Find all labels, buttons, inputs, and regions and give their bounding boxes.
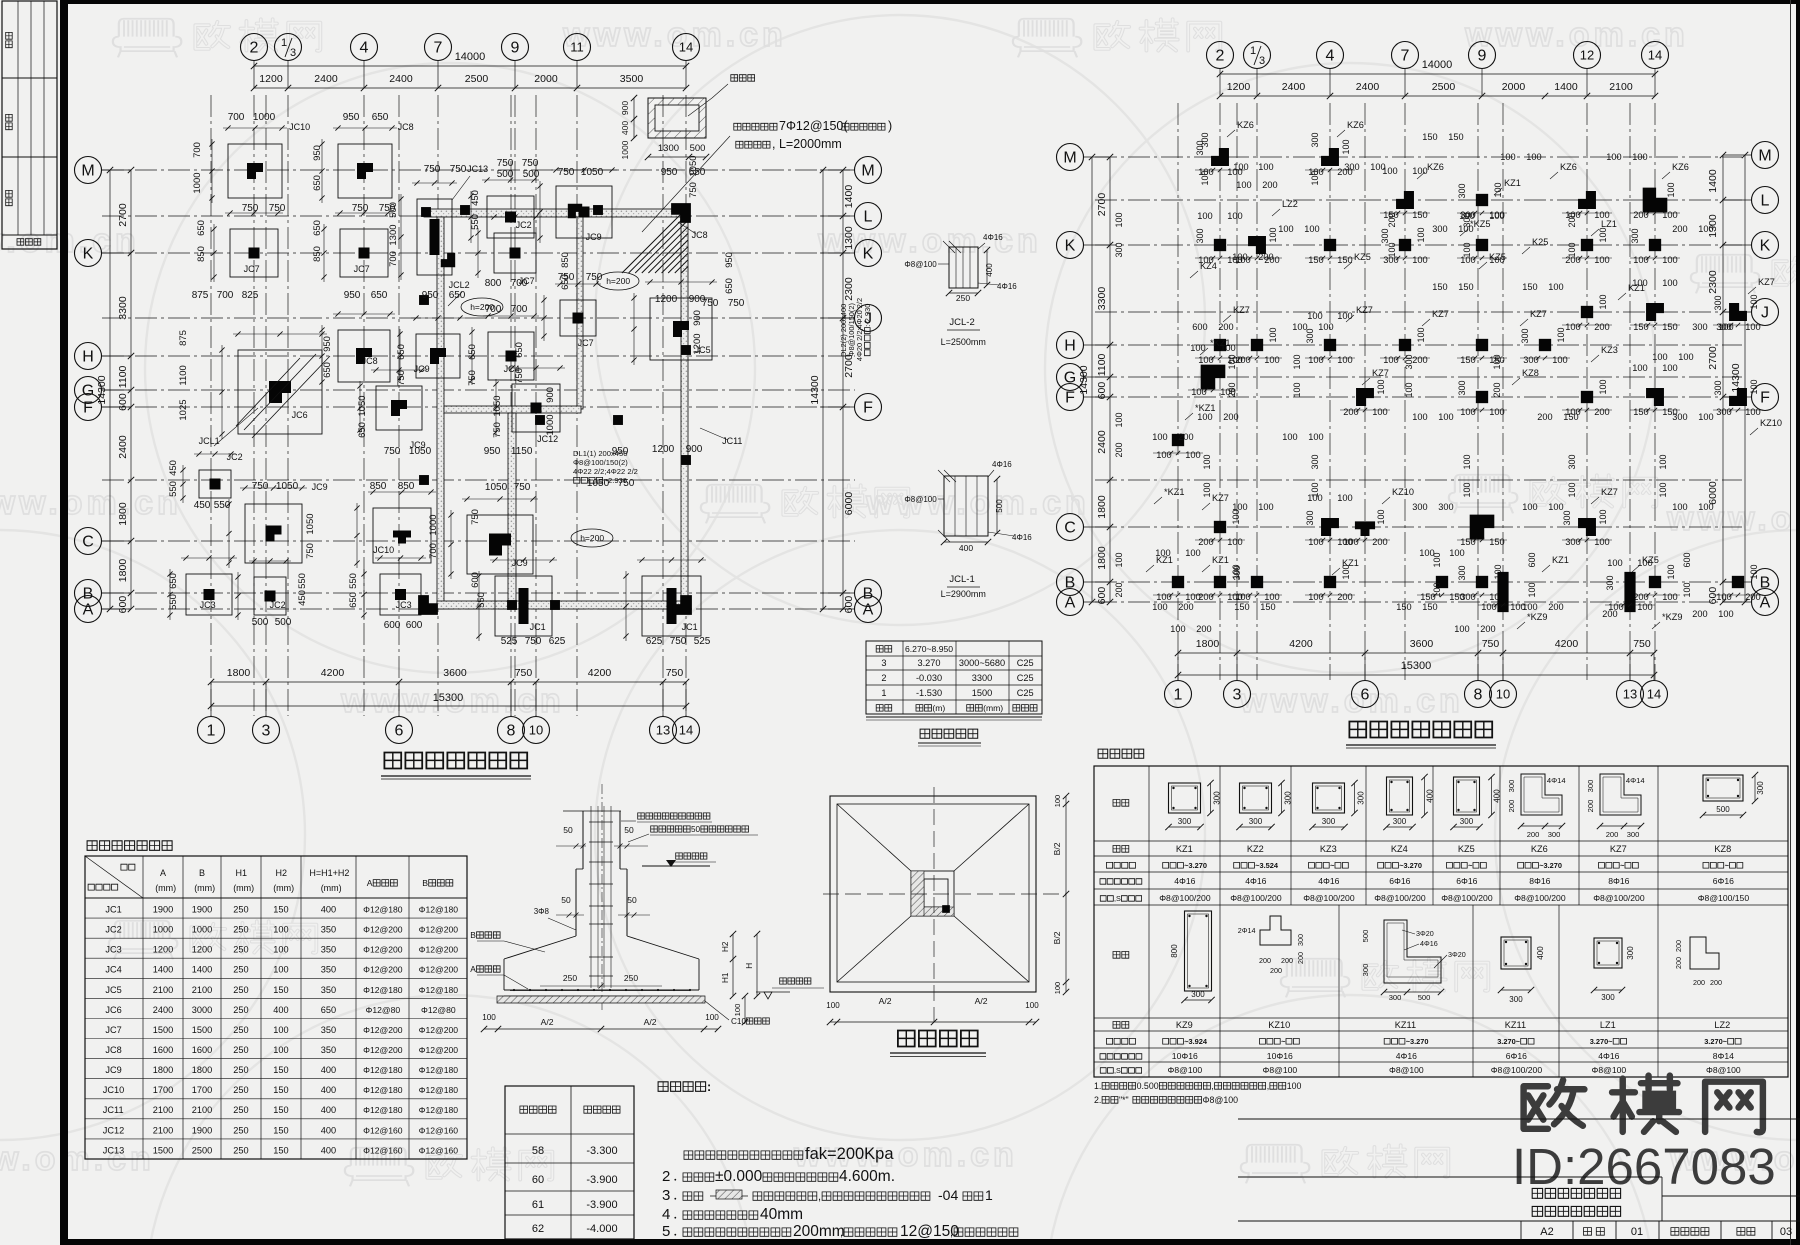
svg-text:Φ12@80: Φ12@80 xyxy=(421,1005,456,1015)
svg-text:3600: 3600 xyxy=(443,667,467,679)
svg-text:1000: 1000 xyxy=(192,172,203,193)
svg-text:B: B xyxy=(199,868,205,878)
svg-text:1100: 1100 xyxy=(178,365,189,385)
svg-text:550: 550 xyxy=(470,214,481,230)
svg-text:100: 100 xyxy=(1698,502,1713,512)
svg-text:100: 100 xyxy=(273,945,288,955)
svg-text:100: 100 xyxy=(1598,227,1608,242)
svg-text:100: 100 xyxy=(1202,454,1212,469)
right plan column marks xyxy=(1153,139,1763,612)
svg-text:3Φ20: 3Φ20 xyxy=(1448,950,1466,959)
sheet frame bottom border xyxy=(60,1239,1800,1245)
svg-text:1050: 1050 xyxy=(276,481,299,492)
svg-text:H: H xyxy=(1064,338,1076,355)
svg-text:900: 900 xyxy=(545,387,556,403)
svg-text:2700: 2700 xyxy=(1707,346,1719,370)
svg-text:2: 2 xyxy=(1216,48,1225,65)
right plan top segment dimensions xyxy=(1217,81,1658,99)
svg-text:100: 100 xyxy=(1404,382,1414,397)
svg-text:Φ8@100: Φ8@100 xyxy=(1168,1065,1203,1075)
svg-text:2300: 2300 xyxy=(1707,270,1719,294)
svg-text:100: 100 xyxy=(1662,278,1678,288)
svg-text:1700: 1700 xyxy=(153,1085,173,1095)
svg-text:300: 300 xyxy=(1507,780,1516,793)
svg-text:100: 100 xyxy=(1548,282,1563,292)
left plan h=200 labels xyxy=(461,298,503,316)
svg-text:300: 300 xyxy=(1462,212,1472,227)
svg-text:100: 100 xyxy=(1607,558,1623,568)
svg-text:1600: 1600 xyxy=(192,1045,212,1055)
svg-text:JCL1: JCL1 xyxy=(199,436,220,446)
foundation JC3 xyxy=(167,555,237,620)
right plan bottom segment dimensions xyxy=(1175,638,1657,656)
svg-text:Φ12@200: Φ12@200 xyxy=(363,1045,403,1055)
svg-text:200: 200 xyxy=(1412,355,1428,365)
svg-text:2.: 2. xyxy=(1094,1095,1101,1105)
svg-text:9: 9 xyxy=(511,40,520,57)
svg-text:H: H xyxy=(745,963,754,969)
svg-text:1800: 1800 xyxy=(117,502,129,526)
left plan axis grid xyxy=(102,95,855,716)
svg-text:300: 300 xyxy=(1586,780,1595,793)
svg-text:Φ12@200: Φ12@200 xyxy=(363,945,403,955)
svg-text:KZ11: KZ11 xyxy=(1505,1020,1526,1030)
svg-text:750: 750 xyxy=(1482,638,1500,650)
svg-text:100: 100 xyxy=(1662,592,1678,602)
svg-text:100: 100 xyxy=(1282,432,1297,442)
svg-text:LZ1: LZ1 xyxy=(1601,219,1617,229)
svg-text:200: 200 xyxy=(1602,609,1617,619)
svg-text:200: 200 xyxy=(1178,602,1193,612)
svg-text:300: 300 xyxy=(1310,454,1320,469)
svg-text:850: 850 xyxy=(312,246,323,262)
svg-text:1400: 1400 xyxy=(1707,169,1719,193)
svg-text:KZ10: KZ10 xyxy=(1760,418,1782,428)
svg-text:8: 8 xyxy=(507,723,516,740)
svg-text:-3.300: -3.300 xyxy=(586,1145,617,1157)
foundation JC5 xyxy=(631,279,717,365)
svg-text:100: 100 xyxy=(1432,582,1442,597)
svg-text:1: 1 xyxy=(1250,45,1256,57)
svg-text:150: 150 xyxy=(273,905,288,915)
svg-text:100: 100 xyxy=(1202,482,1212,497)
svg-text:250: 250 xyxy=(624,973,638,983)
svg-text:7: 7 xyxy=(434,40,443,57)
foundation JC8 xyxy=(319,311,395,387)
foundation JC10 xyxy=(209,122,310,203)
svg-text:L: L xyxy=(864,209,873,226)
svg-text:100: 100 xyxy=(1454,624,1469,634)
svg-text:150: 150 xyxy=(273,1125,288,1135)
svg-text:JC10: JC10 xyxy=(289,122,310,132)
svg-text:300: 300 xyxy=(1344,162,1359,172)
svg-text:14000: 14000 xyxy=(455,51,486,63)
svg-text:100: 100 xyxy=(1310,170,1320,185)
svg-text:500: 500 xyxy=(252,617,269,628)
svg-text:100: 100 xyxy=(1698,412,1713,422)
svg-text:950: 950 xyxy=(322,336,333,352)
svg-text:750: 750 xyxy=(515,667,533,679)
svg-text:1500: 1500 xyxy=(972,688,992,698)
watermark logo tiles xyxy=(113,19,321,58)
svg-text:4Φ16: 4Φ16 xyxy=(1598,1051,1619,1061)
svg-text:200mm: 200mm xyxy=(793,1223,845,1240)
svg-text:JC8: JC8 xyxy=(692,230,708,240)
svg-text:F: F xyxy=(1065,390,1075,407)
svg-text:1000: 1000 xyxy=(253,112,276,123)
svg-text:KZ1: KZ1 xyxy=(1504,178,1521,188)
svg-text:1300: 1300 xyxy=(843,226,855,250)
svg-text:4Φ16: 4Φ16 xyxy=(1245,876,1266,886)
svg-text:100: 100 xyxy=(1337,355,1353,365)
svg-text:*KZ1: *KZ1 xyxy=(1210,338,1230,348)
svg-text:100: 100 xyxy=(1606,152,1621,162)
svg-text:300: 300 xyxy=(1630,228,1640,243)
svg-text:(mm): (mm) xyxy=(983,703,1003,713)
svg-text:3: 3 xyxy=(290,47,296,59)
svg-text:100: 100 xyxy=(1666,564,1676,579)
svg-text:2400: 2400 xyxy=(117,435,129,459)
svg-text:1050: 1050 xyxy=(305,513,316,534)
foundation JC7 xyxy=(211,210,283,282)
svg-text:Φ12@180: Φ12@180 xyxy=(419,985,459,995)
svg-text:1400: 1400 xyxy=(192,965,212,975)
svg-text:KZ9: KZ9 xyxy=(1176,1020,1193,1030)
svg-text:Φ12@180: Φ12@180 xyxy=(363,985,403,995)
svg-text:1.: 1. xyxy=(1094,1081,1101,1091)
svg-text:1800: 1800 xyxy=(1096,495,1108,519)
svg-text:200: 200 xyxy=(1537,412,1552,422)
svg-text:100: 100 xyxy=(1594,537,1610,547)
foundation JC9 xyxy=(397,315,465,383)
watermark 欧模网 dark logo xyxy=(1524,1076,1763,1133)
svg-text:100: 100 xyxy=(1200,170,1210,185)
svg-text:100: 100 xyxy=(1310,482,1320,497)
svg-text:300: 300 xyxy=(1438,502,1453,512)
svg-text:LZ1: LZ1 xyxy=(1600,1020,1616,1030)
svg-text:750: 750 xyxy=(525,636,542,647)
svg-text:500: 500 xyxy=(388,202,399,218)
svg-text:200: 200 xyxy=(1387,212,1397,227)
svg-text:150: 150 xyxy=(273,1085,288,1095)
svg-text:100: 100 xyxy=(1372,407,1388,417)
svg-text:1: 1 xyxy=(985,1187,993,1203)
svg-text:~3.924: ~3.924 xyxy=(1184,1037,1208,1046)
svg-text:750: 750 xyxy=(242,203,259,214)
svg-text:100: 100 xyxy=(1412,412,1427,422)
svg-text:150: 150 xyxy=(1458,282,1473,292)
svg-text:KZ8: KZ8 xyxy=(1522,368,1539,378)
svg-text:www.om.cn: www.om.cn xyxy=(1239,682,1464,720)
svg-text:100: 100 xyxy=(1416,227,1426,242)
svg-text:300: 300 xyxy=(1305,510,1315,525)
svg-text:10: 10 xyxy=(529,723,543,738)
svg-text:www.om.cn: www.om.cn xyxy=(865,484,1090,522)
svg-text:Φ12@200: Φ12@200 xyxy=(363,925,403,935)
svg-text:A: A xyxy=(1760,595,1771,612)
svg-text:Φ12@180: Φ12@180 xyxy=(419,905,459,915)
svg-text:KZ4: KZ4 xyxy=(1200,261,1217,271)
svg-text:1000: 1000 xyxy=(620,140,630,159)
svg-text:3.270~: 3.270~ xyxy=(1590,1037,1613,1046)
svg-text:1100: 1100 xyxy=(117,365,129,388)
svg-text:1000: 1000 xyxy=(192,925,212,935)
svg-text:2400: 2400 xyxy=(389,73,413,85)
left plan right axis bubbles xyxy=(820,157,882,623)
svg-text:3: 3 xyxy=(1233,687,1242,704)
svg-text:250: 250 xyxy=(233,1025,248,1035)
svg-text:300: 300 xyxy=(1432,224,1447,234)
left plan bottom segment dimensions xyxy=(208,667,689,685)
foundation JC12 xyxy=(493,365,565,444)
svg-text:300: 300 xyxy=(1713,295,1723,310)
svg-text:400: 400 xyxy=(1493,789,1502,803)
corner radial rebar hatch xyxy=(622,207,688,273)
svg-text:Φ12@200: Φ12@200 xyxy=(419,945,459,955)
svg-text:KZ1: KZ1 xyxy=(1628,283,1645,293)
svg-text:600: 600 xyxy=(1096,382,1108,400)
foundation JC1 xyxy=(623,557,706,641)
svg-text:2100: 2100 xyxy=(192,1105,212,1115)
svg-text:100: 100 xyxy=(1114,412,1124,427)
svg-text:KZ7: KZ7 xyxy=(1432,309,1449,319)
svg-text:~3.270: ~3.270 xyxy=(1539,861,1562,870)
svg-text:100: 100 xyxy=(1462,454,1472,469)
svg-text:350: 350 xyxy=(321,1045,336,1055)
svg-text:JC2: JC2 xyxy=(105,925,121,935)
svg-text:525: 525 xyxy=(501,636,518,647)
svg-text:5: 5 xyxy=(662,1223,670,1240)
svg-text:1600: 1600 xyxy=(153,1045,173,1055)
foundation JC9 xyxy=(537,167,617,243)
svg-text:300: 300 xyxy=(1389,993,1402,1002)
svg-text:700: 700 xyxy=(217,290,234,301)
right plan left axis bubbles xyxy=(1057,144,1111,616)
svg-text:150: 150 xyxy=(1234,602,1249,612)
svg-text:1050: 1050 xyxy=(587,478,610,489)
svg-text:100: 100 xyxy=(1268,227,1278,242)
svg-text:(m): (m) xyxy=(932,703,945,713)
foundation JC3 xyxy=(361,555,426,620)
svg-text:200: 200 xyxy=(1296,952,1305,964)
svg-text:KZ10: KZ10 xyxy=(1392,487,1414,497)
svg-text:4Φ16: 4Φ16 xyxy=(992,460,1012,469)
svg-text:950: 950 xyxy=(724,252,735,268)
svg-text:JC3: JC3 xyxy=(105,945,121,955)
svg-text:1300: 1300 xyxy=(658,143,679,154)
svg-text:KZ7: KZ7 xyxy=(1372,368,1389,378)
svg-text:750: 750 xyxy=(702,298,719,309)
svg-text:100: 100 xyxy=(826,1001,840,1010)
svg-text:100: 100 xyxy=(1185,450,1201,460)
svg-text:Φ12@180: Φ12@180 xyxy=(363,1105,403,1115)
svg-text:Φ12@160: Φ12@160 xyxy=(419,1145,459,1155)
svg-text:50: 50 xyxy=(624,825,634,835)
svg-text:100: 100 xyxy=(1227,537,1243,547)
svg-text:,: , xyxy=(1267,1081,1269,1091)
svg-text:100: 100 xyxy=(1318,322,1333,332)
svg-text:JC11: JC11 xyxy=(103,1105,124,1115)
svg-text:B: B xyxy=(83,586,94,603)
svg-text:50: 50 xyxy=(627,895,637,905)
svg-text:100: 100 xyxy=(1304,224,1319,234)
svg-text:300: 300 xyxy=(1562,510,1572,525)
svg-text:2Φ14: 2Φ14 xyxy=(1238,926,1256,935)
foundation JC xyxy=(398,180,457,280)
svg-text:100: 100 xyxy=(1114,212,1124,227)
left plan left segment dimensions xyxy=(117,167,134,614)
svg-text:300: 300 xyxy=(1672,412,1687,422)
svg-text:200: 200 xyxy=(1259,956,1271,965)
svg-text:150: 150 xyxy=(1563,412,1578,422)
svg-text:300: 300 xyxy=(1567,454,1577,469)
svg-text:~3.270: ~3.270 xyxy=(1399,861,1422,870)
svg-text:450: 450 xyxy=(297,590,308,606)
svg-text:550: 550 xyxy=(168,594,179,610)
svg-text:2100: 2100 xyxy=(153,985,173,995)
svg-text:100: 100 xyxy=(273,925,288,935)
svg-text:550: 550 xyxy=(297,573,308,589)
svg-text:1050: 1050 xyxy=(409,446,432,457)
svg-text:500: 500 xyxy=(1361,930,1370,943)
svg-text:750: 750 xyxy=(352,203,369,214)
left plan title 基础平面布置图 xyxy=(381,753,531,780)
right plan rotated dims xyxy=(1114,132,1692,597)
svg-text:150: 150 xyxy=(1422,132,1437,142)
svg-text:JC12: JC12 xyxy=(103,1125,124,1135)
svg-text:200: 200 xyxy=(1178,432,1193,442)
svg-text:2400: 2400 xyxy=(1356,81,1380,93)
svg-text:KZ2: KZ2 xyxy=(1247,844,1264,854)
svg-text:6Φ16: 6Φ16 xyxy=(1389,876,1410,886)
right plan title 柱子平法施工图 xyxy=(1346,722,1496,749)
svg-text:Φ12@180: Φ12@180 xyxy=(363,1065,403,1075)
svg-text:LZ2: LZ2 xyxy=(1282,199,1298,209)
svg-text:250: 250 xyxy=(233,1125,248,1135)
svg-text:100: 100 xyxy=(1308,432,1323,442)
svg-text:200: 200 xyxy=(1606,830,1619,839)
svg-text:350: 350 xyxy=(321,985,336,995)
svg-text:~3.270: ~3.270 xyxy=(1406,1037,1429,1046)
svg-text:Φ8@100: Φ8@100 xyxy=(904,260,937,269)
svg-text:700: 700 xyxy=(428,543,439,559)
svg-text:650: 650 xyxy=(371,290,388,301)
svg-text:www.om.cn: www.om.cn xyxy=(0,222,140,260)
detail JCL-1 xyxy=(904,460,1032,599)
svg-text:JC13: JC13 xyxy=(103,1145,124,1155)
svg-text:300: 300 xyxy=(1284,791,1293,805)
svg-text:700: 700 xyxy=(192,142,203,158)
svg-text:100: 100 xyxy=(1526,152,1541,162)
svg-text:450: 450 xyxy=(470,190,481,206)
svg-text:B: B xyxy=(422,878,428,888)
svg-text:M: M xyxy=(81,163,94,180)
svg-text:500: 500 xyxy=(1716,805,1730,814)
svg-text:750: 750 xyxy=(666,667,684,679)
svg-text:250: 250 xyxy=(233,1145,248,1155)
svg-text:300: 300 xyxy=(1601,993,1615,1002)
svg-text:200: 200 xyxy=(1674,957,1683,969)
svg-text:150: 150 xyxy=(1448,132,1463,142)
svg-text:KZ6: KZ6 xyxy=(1237,120,1254,130)
svg-text:JC6: JC6 xyxy=(105,1005,121,1015)
svg-text:C: C xyxy=(82,534,94,551)
svg-text:250: 250 xyxy=(233,985,248,995)
svg-text:750: 750 xyxy=(450,164,467,175)
detail 柱基大样 footing section xyxy=(470,784,824,1032)
svg-text:JC1: JC1 xyxy=(530,622,546,632)
svg-text:750: 750 xyxy=(305,543,316,559)
svg-text:58: 58 xyxy=(532,1145,544,1157)
svg-text:JC3: JC3 xyxy=(396,600,412,610)
svg-text:200: 200 xyxy=(1372,537,1388,547)
svg-text:Φ8@100/200: Φ8@100/200 xyxy=(1303,893,1355,903)
foundation JC4 xyxy=(469,313,539,385)
svg-text:JC1: JC1 xyxy=(105,905,121,915)
svg-text:300: 300 xyxy=(1114,242,1124,257)
svg-text:62: 62 xyxy=(532,1223,544,1235)
svg-text:JC4: JC4 xyxy=(105,965,121,975)
svg-text:JC9: JC9 xyxy=(586,232,602,242)
svg-text:350: 350 xyxy=(321,965,336,975)
svg-text:H=H1+H2: H=H1+H2 xyxy=(309,868,349,878)
left plan bottom overall dimension 15300 xyxy=(208,692,689,709)
foundation JC9 xyxy=(448,496,538,579)
svg-text:600: 600 xyxy=(1682,552,1692,567)
svg-text:100: 100 xyxy=(1412,166,1428,176)
svg-text:100: 100 xyxy=(1233,162,1248,172)
svg-text:650: 650 xyxy=(322,362,333,378)
svg-text:4: 4 xyxy=(360,40,369,57)
title block lines xyxy=(1238,1119,1800,1221)
foundation JC2 xyxy=(468,177,539,243)
svg-text:1050: 1050 xyxy=(581,167,604,178)
svg-text:JC13: JC13 xyxy=(467,164,488,174)
svg-text:JC7: JC7 xyxy=(578,338,594,348)
svg-text:KZ7: KZ7 xyxy=(1610,844,1627,854)
svg-text:(mm): (mm) xyxy=(194,883,215,893)
svg-text:650: 650 xyxy=(396,344,407,360)
svg-text:200: 200 xyxy=(1710,978,1722,987)
svg-text:2000: 2000 xyxy=(1502,81,1526,93)
svg-text:A: A xyxy=(863,602,874,619)
svg-text:C25: C25 xyxy=(1017,673,1034,683)
svg-text:300: 300 xyxy=(1361,964,1370,977)
svg-text:2300: 2300 xyxy=(843,277,855,301)
svg-text:200: 200 xyxy=(1594,322,1610,332)
svg-text:900: 900 xyxy=(686,444,703,455)
foundation JC2 xyxy=(235,558,291,620)
svg-text:100: 100 xyxy=(1227,354,1237,369)
svg-text:B: B xyxy=(470,930,476,940)
svg-text:300: 300 xyxy=(1178,817,1192,826)
svg-text:100: 100 xyxy=(1387,242,1397,257)
svg-text:100: 100 xyxy=(1278,224,1293,234)
svg-text:100: 100 xyxy=(1678,352,1693,362)
svg-text::-2.930: :-2.930 xyxy=(863,304,872,327)
svg-text:150: 150 xyxy=(1396,602,1411,612)
svg-text:400: 400 xyxy=(985,263,994,277)
svg-text:100: 100 xyxy=(1522,502,1537,512)
svg-text:450: 450 xyxy=(168,460,179,476)
svg-text:650: 650 xyxy=(357,422,368,438)
watermark circles xyxy=(145,63,755,673)
svg-text:JC9: JC9 xyxy=(312,482,328,492)
svg-text:JC7: JC7 xyxy=(105,1025,121,1035)
svg-text:,: , xyxy=(840,1227,843,1239)
svg-text:A: A xyxy=(160,868,166,878)
svg-text:6: 6 xyxy=(1361,687,1370,704)
